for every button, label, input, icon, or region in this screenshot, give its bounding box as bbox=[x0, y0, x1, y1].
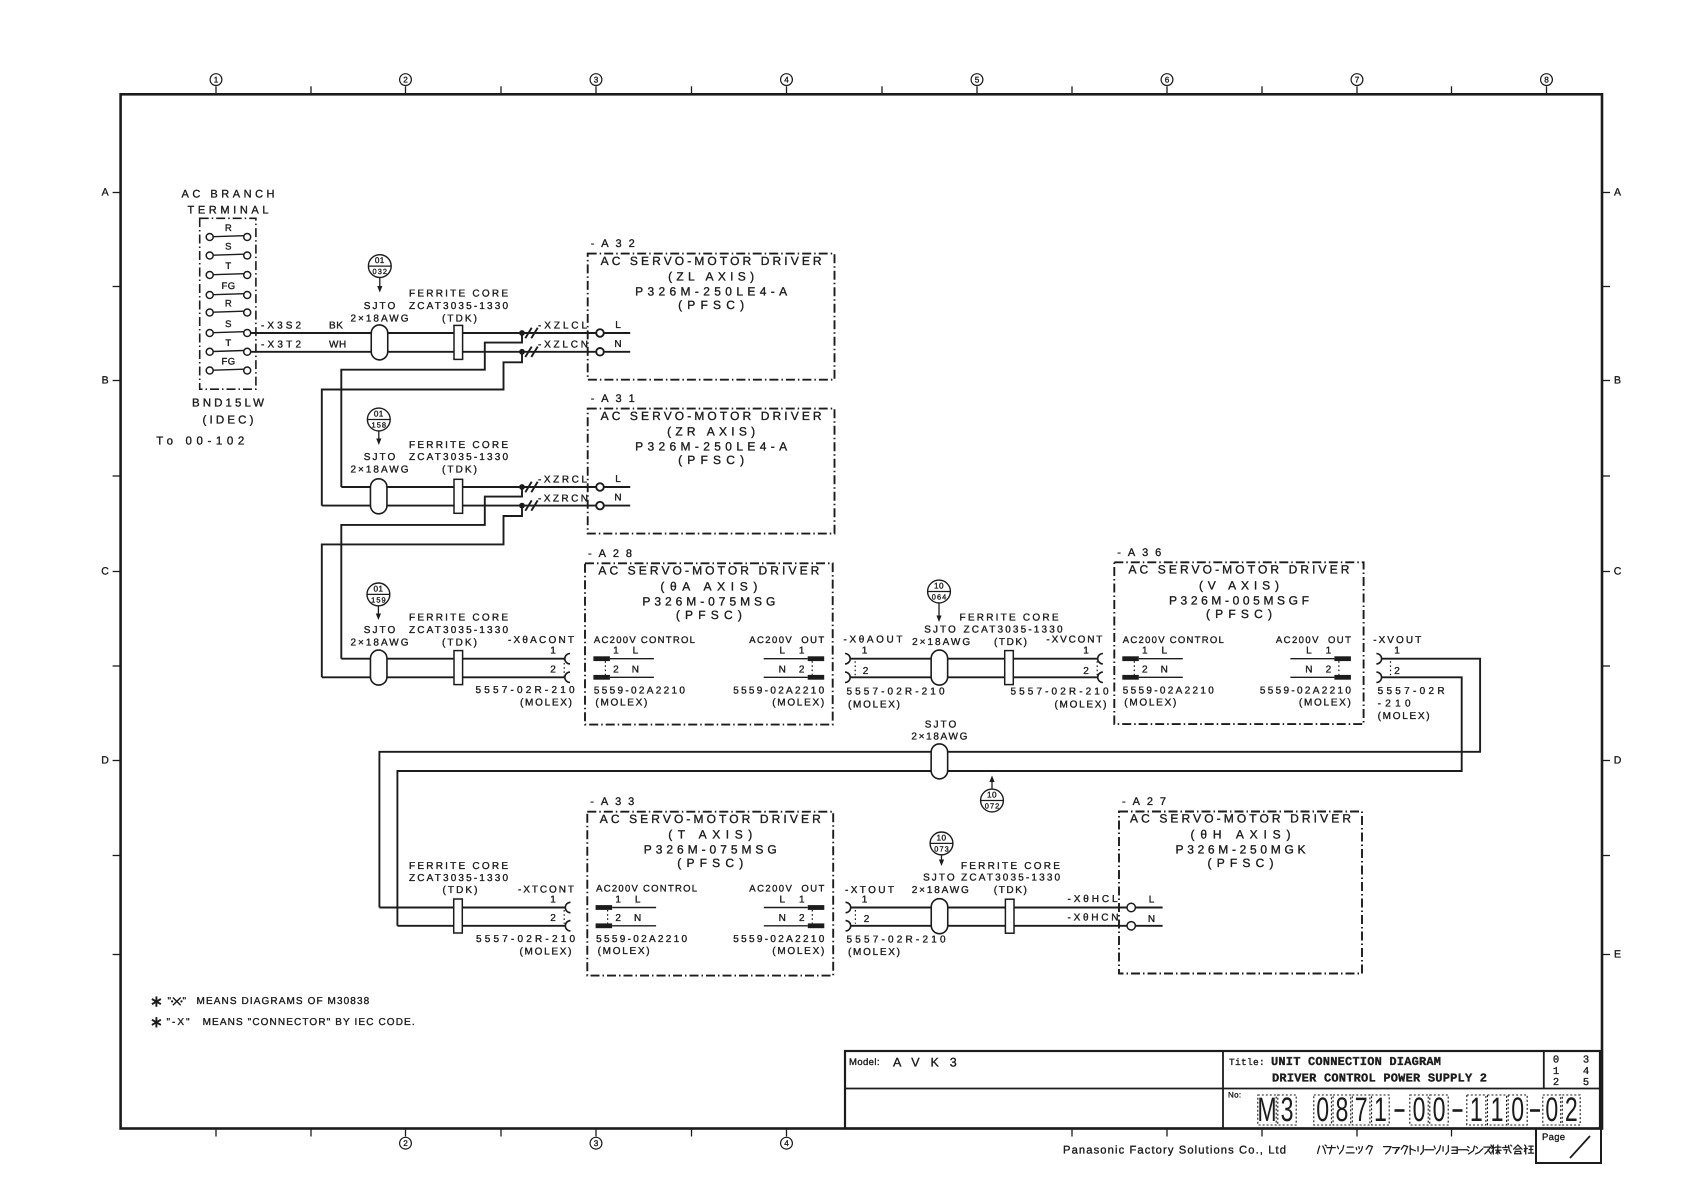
svg-text:-XTCONT: -XTCONT bbox=[518, 884, 574, 895]
svg-text:1: 1 bbox=[550, 895, 556, 906]
svg-text:SJTO: SJTO bbox=[364, 625, 396, 636]
svg-text:2: 2 bbox=[550, 665, 556, 676]
svg-text:R: R bbox=[225, 299, 232, 310]
wire branch N: -XZLCN junction down to A31 N bbox=[322, 352, 522, 506]
svg-text:(IDEC): (IDEC) bbox=[203, 415, 254, 427]
svg-text:N: N bbox=[1148, 914, 1155, 925]
svg-text:L: L bbox=[1149, 895, 1155, 906]
svg-text:1: 1 bbox=[1470, 1091, 1483, 1129]
svg-text:FERRITE CORE: FERRITE CORE bbox=[409, 613, 508, 624]
svg-text:"-X": "-X" bbox=[167, 1017, 192, 1028]
svg-text:-XθACONT: -XθACONT bbox=[508, 635, 574, 646]
svg-text:Model:: Model: bbox=[849, 1057, 880, 1068]
svg-text:4: 4 bbox=[784, 76, 789, 85]
svg-text:(MOLEX): (MOLEX) bbox=[772, 698, 824, 709]
connector -XTOUT pin 2 bbox=[846, 914, 870, 931]
svg-text:B: B bbox=[102, 375, 109, 387]
terminal N of A27 bbox=[1127, 914, 1163, 930]
svg-text:2: 2 bbox=[1565, 1091, 1578, 1129]
terminal L of A32 bbox=[596, 320, 630, 337]
svg-text:01: 01 bbox=[374, 409, 384, 418]
note: means diagrams of M30838 bbox=[152, 996, 370, 1007]
svg-text:0: 0 bbox=[1316, 1091, 1329, 1129]
svg-text:N: N bbox=[779, 913, 786, 924]
reference circle 10/073 bbox=[930, 832, 953, 866]
svg-text:(ZR AXIS): (ZR AXIS) bbox=[667, 425, 755, 439]
connector -XVCONT pin 1 bbox=[1083, 646, 1103, 664]
svg-text:2: 2 bbox=[1553, 1077, 1559, 1089]
svg-text:(MOLEX): (MOLEX) bbox=[772, 946, 824, 957]
svg-text:L: L bbox=[779, 646, 785, 657]
svg-text:S: S bbox=[225, 319, 232, 330]
svg-text:BND15LW: BND15LW bbox=[192, 398, 264, 410]
connector AC200V OUT of A28 bbox=[733, 635, 824, 709]
svg-text:Page: Page bbox=[1542, 1132, 1565, 1143]
svg-text:L: L bbox=[615, 320, 621, 331]
svg-text:(MOLEX): (MOLEX) bbox=[595, 698, 647, 709]
svg-text:N: N bbox=[1161, 664, 1168, 675]
driver unit U-A36 AC SERVO-MOTOR DRIVER (V AXIS) bbox=[1114, 547, 1363, 724]
svg-text:3: 3 bbox=[594, 76, 599, 85]
wire -XTOUT pin2 to -X0HCN bbox=[851, 925, 1127, 927]
svg-text:L: L bbox=[780, 895, 786, 906]
svg-text:(MOLEX): (MOLEX) bbox=[1378, 711, 1430, 722]
svg-text:2: 2 bbox=[799, 664, 805, 675]
svg-text:1: 1 bbox=[214, 76, 219, 85]
svg-text:1: 1 bbox=[1326, 646, 1332, 657]
svg-text:E: E bbox=[1614, 949, 1621, 961]
svg-text:0: 0 bbox=[1553, 1055, 1559, 1067]
svg-text:WH: WH bbox=[329, 340, 347, 351]
connector -X0AOUT pin 2 bbox=[845, 666, 869, 683]
reference circle 01/032 bbox=[368, 255, 391, 293]
svg-text:(MOLEX): (MOLEX) bbox=[848, 947, 900, 958]
svg-text:Panasonic Factory Solutions Co: Panasonic Factory Solutions Co., Ltd bbox=[1063, 1145, 1286, 1157]
svg-text:L: L bbox=[1306, 646, 1312, 657]
svg-text:(θH AXIS): (θH AXIS) bbox=[1191, 828, 1291, 842]
terminal L of A27 bbox=[1127, 895, 1163, 912]
svg-text:(MOLEX): (MOLEX) bbox=[520, 946, 572, 957]
cable SJTO 2x18AWG (A28 control) bbox=[370, 650, 387, 685]
svg-text:159: 159 bbox=[371, 595, 386, 604]
wire bus N: -XVOUT pin2 to -XTCONT pin2 bbox=[397, 677, 1461, 926]
svg-text:No:: No: bbox=[1228, 1091, 1241, 1100]
svg-text:(TDK): (TDK) bbox=[994, 885, 1027, 896]
svg-text:T: T bbox=[225, 261, 231, 272]
svg-text:(MOLEX): (MOLEX) bbox=[848, 699, 900, 710]
svg-text:(MOLEX): (MOLEX) bbox=[598, 946, 650, 957]
wire -XTOUT pin1 to -X0HCL bbox=[851, 907, 1127, 909]
svg-text:L: L bbox=[615, 474, 621, 485]
svg-text:To 00-102: To 00-102 bbox=[156, 436, 244, 448]
reference circle 10/072 bbox=[981, 776, 1004, 812]
driver unit U-A31 AC SERVO-MOTOR DRIVER (ZR AXIS) bbox=[588, 393, 835, 533]
svg-text:SJTO: SJTO bbox=[924, 625, 956, 636]
svg-text:2: 2 bbox=[403, 1139, 408, 1148]
svg-text:FERRITE CORE: FERRITE CORE bbox=[409, 861, 508, 872]
svg-text:1: 1 bbox=[1374, 1091, 1387, 1129]
svg-text:FERRITE CORE: FERRITE CORE bbox=[961, 861, 1060, 872]
svg-text:FERRITE CORE: FERRITE CORE bbox=[960, 612, 1059, 623]
svg-text:4: 4 bbox=[784, 1139, 789, 1148]
svg-text:M: M bbox=[1257, 1091, 1276, 1129]
svg-text:": " bbox=[168, 996, 172, 1007]
connector -XTCONT pin 2 bbox=[550, 913, 570, 931]
connector -XVOUT pin 1 bbox=[1376, 646, 1400, 664]
svg-text:1: 1 bbox=[799, 646, 805, 657]
wire branch L: -XZRCL junction down to A28 row bbox=[341, 487, 522, 659]
svg-text:-XVCONT: -XVCONT bbox=[1046, 634, 1102, 645]
ferrite core ZCAT3035-1330 (-XTCONT) bbox=[454, 899, 463, 933]
svg-text:-XθAOUT: -XθAOUT bbox=[844, 635, 903, 646]
svg-text:L: L bbox=[1162, 646, 1168, 657]
wire A31 L cable bbox=[341, 486, 596, 488]
svg-text:N: N bbox=[779, 664, 786, 675]
wire -X3T2 (WH) from terminal T to -XZLCN bbox=[251, 351, 597, 353]
svg-text:2: 2 bbox=[864, 914, 870, 925]
page box bbox=[1536, 1129, 1601, 1164]
reference circle 01/159 bbox=[367, 583, 390, 620]
wire -X3S2 (BK) from terminal S to -XZLCL bbox=[251, 332, 597, 334]
svg-text:FG: FG bbox=[222, 357, 236, 368]
wire -X0AOUT/-XVCONT pin1 bbox=[850, 658, 1097, 660]
svg-text:2: 2 bbox=[550, 913, 556, 924]
svg-text:N: N bbox=[634, 913, 641, 924]
svg-text:10: 10 bbox=[987, 790, 997, 799]
svg-text:DRIVER CONTROL POWER SUPPLY 2: DRIVER CONTROL POWER SUPPLY 2 bbox=[1272, 1072, 1487, 1086]
svg-text:5: 5 bbox=[975, 76, 980, 85]
svg-text:S: S bbox=[225, 242, 232, 253]
ferrite core ZCAT3035-1330 (A28 control) bbox=[454, 651, 463, 685]
connector -X0ACONT pin 2 bbox=[550, 665, 570, 683]
terminal N of A32 bbox=[596, 339, 630, 356]
connector -XVCONT pin 2 bbox=[1083, 666, 1103, 683]
svg-text:UNIT CONNECTION DIAGRAM: UNIT CONNECTION DIAGRAM bbox=[1271, 1055, 1441, 1069]
svg-text:D: D bbox=[1614, 755, 1622, 767]
op-amp substitute: driver unit U-A32 AC SERVO-MOTOR DRIVER (ZL AXIS) bbox=[588, 238, 835, 380]
cable SJTO 2x18AWG (A28 out) bbox=[931, 650, 948, 685]
svg-text:L: L bbox=[635, 895, 641, 906]
terminal L of A31 bbox=[596, 474, 630, 491]
driver unit U-A28 AC SERVO-MOTOR DRIVER (0A AXIS) bbox=[585, 548, 833, 725]
svg-text:-XZRCN: -XZRCN bbox=[538, 494, 588, 505]
connector -XTCONT pin 1 bbox=[550, 895, 570, 913]
svg-text:3: 3 bbox=[594, 1139, 599, 1148]
svg-text:3: 3 bbox=[1281, 1091, 1294, 1129]
svg-text:C: C bbox=[101, 566, 109, 578]
svg-text:1: 1 bbox=[862, 646, 868, 657]
svg-text:073: 073 bbox=[934, 844, 949, 853]
svg-text:-XθHCN: -XθHCN bbox=[1068, 913, 1119, 924]
node junction -XZLCN bbox=[519, 349, 525, 355]
svg-text:R: R bbox=[225, 223, 232, 234]
svg-text:10: 10 bbox=[937, 833, 947, 842]
svg-text:SJTO: SJTO bbox=[925, 720, 957, 731]
svg-text:SJTO: SJTO bbox=[364, 452, 396, 463]
reference circle 10/064 bbox=[928, 580, 951, 622]
svg-text:A: A bbox=[1614, 187, 1621, 199]
svg-text:SJTO: SJTO bbox=[364, 301, 396, 312]
svg-text:6: 6 bbox=[1165, 76, 1170, 85]
svg-text:(MOLEX): (MOLEX) bbox=[1299, 698, 1351, 709]
connector AC200V CONTROL of A28 bbox=[593, 635, 695, 709]
svg-text:AC200V OUT: AC200V OUT bbox=[749, 635, 824, 646]
svg-text:-X3T2: -X3T2 bbox=[261, 340, 301, 351]
svg-text:N: N bbox=[632, 664, 639, 675]
svg-text:2: 2 bbox=[1142, 664, 1148, 675]
cable SJTO 2x18AWG (-XTOUT) bbox=[931, 899, 948, 934]
svg-text:-X3S2: -X3S2 bbox=[261, 321, 301, 332]
wire A31 N cable bbox=[322, 505, 596, 507]
ferrite core ZCAT3035-1330 (A28 out) bbox=[1005, 651, 1014, 685]
svg-text:1: 1 bbox=[1553, 1066, 1559, 1078]
company name japanese (drawn strokes) bbox=[1318, 1145, 1534, 1154]
svg-text:N: N bbox=[614, 339, 621, 350]
ferrite core ZCAT3035-1330 (A32) bbox=[454, 325, 463, 359]
svg-text:1: 1 bbox=[862, 895, 868, 906]
connector -XTOUT pin 1 bbox=[846, 895, 868, 913]
svg-text:T: T bbox=[225, 338, 231, 349]
svg-text:072: 072 bbox=[985, 801, 1000, 810]
svg-text:8: 8 bbox=[1335, 1091, 1348, 1129]
node junction -XZRCL bbox=[519, 484, 525, 490]
svg-text:2: 2 bbox=[1326, 664, 1332, 675]
svg-text:0: 0 bbox=[1511, 1091, 1524, 1129]
wire -XTCONT pin2 bbox=[397, 925, 565, 927]
svg-text:N: N bbox=[614, 493, 621, 504]
svg-text:064: 064 bbox=[932, 592, 947, 601]
connector AC200V CONTROL of A36 bbox=[1122, 635, 1224, 709]
svg-text:P326M-005MSGF: P326M-005MSGF bbox=[1169, 593, 1309, 607]
node junction -XZRCN bbox=[519, 503, 525, 509]
svg-text:158: 158 bbox=[372, 420, 387, 429]
svg-text:C: C bbox=[1614, 566, 1622, 578]
svg-text:01: 01 bbox=[373, 584, 383, 593]
svg-text:(MOLEX): (MOLEX) bbox=[1055, 699, 1107, 710]
note: -X means connector by IEC code bbox=[152, 1017, 415, 1028]
svg-text:AC200V OUT: AC200V OUT bbox=[1276, 635, 1351, 646]
svg-text:MEANS "CONNECTOR" BY IEC CODE.: MEANS "CONNECTOR" BY IEC CODE. bbox=[203, 1017, 415, 1028]
cable SJTO 2x18AWG (A32) bbox=[371, 325, 388, 360]
svg-text:8: 8 bbox=[1544, 76, 1549, 85]
driver unit U-A33 AC SERVO-MOTOR DRIVER (T AXIS) bbox=[587, 796, 833, 975]
svg-text:AC200V OUT: AC200V OUT bbox=[749, 884, 824, 895]
svg-text:4: 4 bbox=[1583, 1066, 1589, 1078]
svg-text:2: 2 bbox=[615, 913, 621, 924]
svg-text:0: 0 bbox=[1433, 1091, 1446, 1129]
cable SJTO 2x18AWG (A31) bbox=[370, 479, 387, 514]
svg-text:2: 2 bbox=[799, 913, 805, 924]
connector AC200V OUT of A36 bbox=[1260, 635, 1351, 709]
ferrite core ZCAT3035-1330 (A31) bbox=[454, 479, 463, 513]
ferrite core ZCAT3035-1330 (-XTOUT) bbox=[1005, 899, 1014, 933]
svg-text:BK: BK bbox=[329, 321, 344, 332]
svg-text:-XZLCN: -XZLCN bbox=[538, 340, 588, 351]
connector AC200V CONTROL of A33 bbox=[596, 884, 698, 957]
svg-text:1: 1 bbox=[799, 895, 805, 906]
svg-text:L: L bbox=[633, 646, 639, 657]
svg-text:(ZL AXIS): (ZL AXIS) bbox=[668, 270, 754, 284]
svg-text:5: 5 bbox=[1583, 1077, 1589, 1089]
connector -X0ACONT pin 1 bbox=[550, 646, 570, 664]
svg-text:032: 032 bbox=[373, 267, 388, 276]
wire A28 control cable pin2 bbox=[322, 676, 565, 678]
svg-text:AVK3: AVK3 bbox=[893, 1056, 968, 1070]
svg-text:Title:: Title: bbox=[1229, 1057, 1265, 1068]
svg-text:1: 1 bbox=[615, 895, 621, 906]
terminal block AC BRANCH TERMINAL (BND15LW, IDEC) bbox=[156, 189, 274, 448]
driver unit U-A27 AC SERVO-MOTOR DRIVER (0H AXIS) bbox=[1119, 796, 1362, 974]
svg-text:2: 2 bbox=[613, 664, 619, 675]
svg-text:2: 2 bbox=[403, 76, 408, 85]
svg-text:(MOLEX): (MOLEX) bbox=[1124, 698, 1176, 709]
connector -XVOUT pin 2 bbox=[1376, 666, 1400, 683]
drawing number M3 0871-00-110-02 bbox=[1257, 1091, 1580, 1129]
svg-text:(TDK): (TDK) bbox=[994, 637, 1027, 648]
svg-text:2: 2 bbox=[863, 666, 869, 677]
svg-text:10: 10 bbox=[934, 581, 944, 590]
svg-text:TERMINAL: TERMINAL bbox=[188, 205, 269, 217]
svg-text:B: B bbox=[1614, 375, 1621, 387]
svg-text:(θA AXIS): (θA AXIS) bbox=[660, 579, 757, 593]
connector -X0AOUT pin 1 bbox=[845, 646, 868, 664]
svg-text:3: 3 bbox=[1583, 1055, 1589, 1067]
svg-text:0: 0 bbox=[1545, 1091, 1558, 1129]
wire dotted pair link -X0ACONT bbox=[563, 659, 565, 678]
connector AC200V OUT of A33 bbox=[733, 884, 824, 957]
terminal N of A31 bbox=[596, 493, 630, 510]
svg-text:1: 1 bbox=[1142, 646, 1148, 657]
svg-text:SJTO: SJTO bbox=[923, 873, 955, 884]
svg-text:(MOLEX): (MOLEX) bbox=[520, 698, 572, 709]
svg-text:01: 01 bbox=[375, 256, 385, 265]
wire -XTCONT pin1 bbox=[379, 907, 565, 909]
title block bbox=[845, 1051, 1600, 1129]
node junction -XZLCL bbox=[519, 330, 525, 336]
svg-text:1: 1 bbox=[1083, 646, 1089, 657]
svg-text:1: 1 bbox=[550, 646, 556, 657]
svg-text:1: 1 bbox=[1394, 646, 1400, 657]
svg-text:2: 2 bbox=[1083, 666, 1089, 677]
svg-text:0: 0 bbox=[1413, 1091, 1426, 1129]
wire branch L: -XZLCL junction down to A31 L bbox=[341, 333, 522, 487]
wire bus L: -XVOUT pin1 to -XTCONT pin1 bbox=[379, 659, 1480, 908]
svg-text:FERRITE CORE: FERRITE CORE bbox=[409, 289, 508, 300]
svg-text:1: 1 bbox=[1491, 1091, 1504, 1129]
svg-text:N: N bbox=[1305, 664, 1312, 675]
svg-text:FERRITE CORE: FERRITE CORE bbox=[409, 440, 508, 451]
svg-text:D: D bbox=[101, 755, 109, 767]
svg-text:7: 7 bbox=[1355, 1091, 1368, 1129]
svg-text:7: 7 bbox=[1355, 76, 1360, 85]
wire -X0AOUT/-XVCONT pin2 bbox=[850, 676, 1097, 678]
svg-text:1: 1 bbox=[613, 646, 619, 657]
svg-text:MEANS DIAGRAMS OF M30838: MEANS DIAGRAMS OF M30838 bbox=[197, 996, 370, 1007]
wire A28 control cable pin1 bbox=[341, 658, 564, 660]
svg-text:A: A bbox=[102, 187, 109, 199]
cable SJTO 2x18AWG (bus) bbox=[911, 720, 967, 779]
svg-text:FG: FG bbox=[222, 281, 236, 292]
svg-text:AC BRANCH: AC BRANCH bbox=[182, 189, 275, 201]
reference circle 01/158 bbox=[367, 408, 390, 445]
svg-text:2: 2 bbox=[1394, 666, 1400, 677]
wire branch N: -XZRCN junction down to A28 row bbox=[322, 506, 522, 678]
svg-text:": " bbox=[183, 996, 187, 1007]
